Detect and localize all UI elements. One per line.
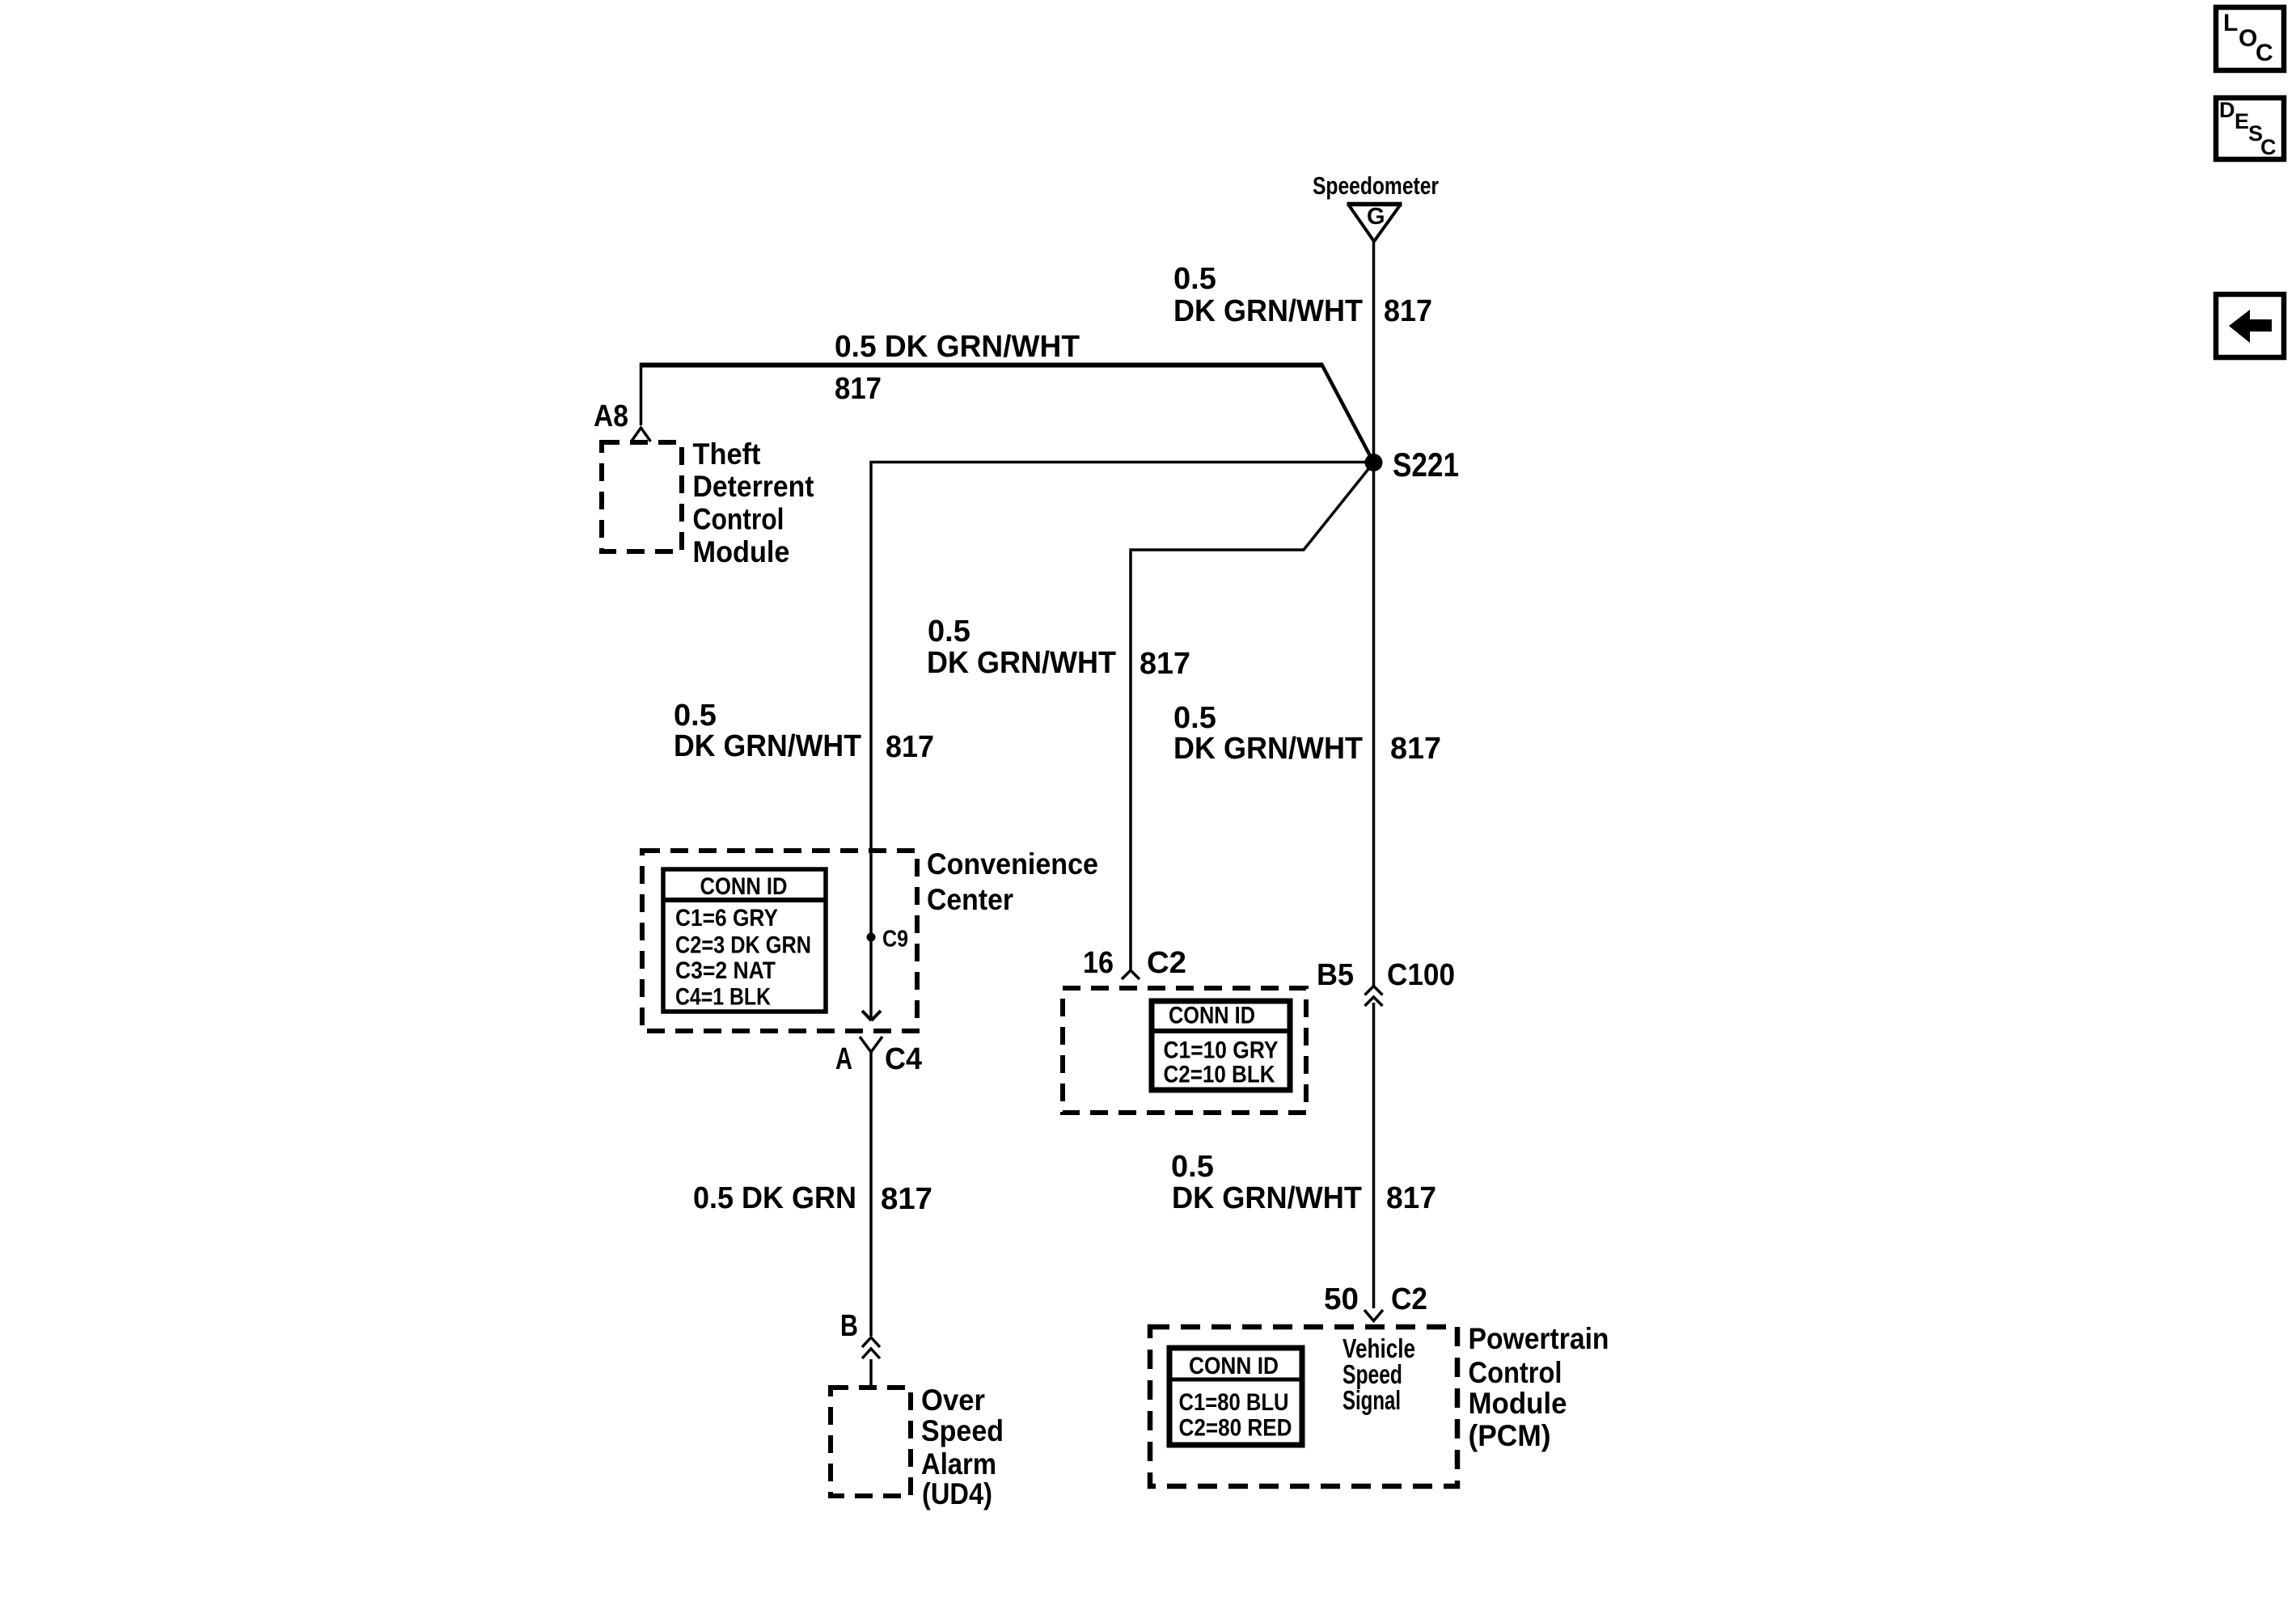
svg-text:C100: C100 [1387, 958, 1455, 992]
svg-text:817: 817 [881, 1182, 932, 1216]
svg-text:B: B [840, 1309, 858, 1343]
svg-text:C3=2 NAT: C3=2 NAT [675, 957, 776, 984]
svg-text:0.5 DK GRN: 0.5 DK GRN [693, 1181, 856, 1215]
svg-text:0.5: 0.5 [1171, 1150, 1214, 1184]
svg-text:E: E [2235, 109, 2249, 133]
svg-text:DK GRN/WHT: DK GRN/WHT [1173, 732, 1363, 766]
svg-text:CONN ID: CONN ID [700, 873, 788, 900]
svg-text:C1=6 GRY: C1=6 GRY [675, 905, 778, 932]
svg-text:0.5 DK GRN/WHT: 0.5 DK GRN/WHT [835, 330, 1080, 364]
svg-text:S221: S221 [1393, 446, 1459, 484]
svg-text:Control: Control [693, 503, 784, 536]
svg-text:Speed: Speed [921, 1414, 1004, 1447]
svg-text:C1=10 GRY: C1=10 GRY [1164, 1037, 1279, 1064]
svg-text:B5: B5 [1317, 958, 1354, 992]
svg-text:Powertrain: Powertrain [1469, 1322, 1609, 1355]
svg-text:(PCM): (PCM) [1469, 1419, 1551, 1452]
svg-text:Convenience: Convenience [927, 847, 1098, 881]
svg-text:Speedometer: Speedometer [1313, 171, 1439, 200]
svg-text:0.5: 0.5 [1173, 262, 1216, 296]
svg-text:0.5: 0.5 [1173, 701, 1216, 735]
svg-text:(UD4): (UD4) [922, 1477, 992, 1510]
svg-text:C4: C4 [885, 1042, 922, 1076]
svg-text:0.5: 0.5 [928, 615, 970, 648]
svg-text:817: 817 [1386, 1181, 1436, 1215]
svg-text:0.5: 0.5 [674, 699, 717, 733]
svg-text:D: D [2219, 98, 2235, 122]
svg-text:DK GRN/WHT: DK GRN/WHT [1173, 294, 1363, 328]
svg-text:Center: Center [927, 883, 1013, 916]
svg-text:CONN ID: CONN ID [1169, 1003, 1255, 1029]
svg-text:DK GRN/WHT: DK GRN/WHT [674, 729, 861, 763]
svg-text:A: A [835, 1042, 852, 1076]
svg-text:DK GRN/WHT: DK GRN/WHT [927, 646, 1116, 680]
svg-text:817: 817 [835, 372, 882, 406]
svg-text:16: 16 [1083, 946, 1114, 980]
svg-text:Module: Module [693, 535, 790, 568]
svg-text:DK GRN/WHT: DK GRN/WHT [1172, 1181, 1362, 1215]
svg-text:50: 50 [1324, 1282, 1359, 1316]
svg-text:Alarm: Alarm [921, 1447, 996, 1481]
svg-text:O: O [2239, 25, 2257, 52]
svg-text:C2=10 BLK: C2=10 BLK [1164, 1062, 1275, 1088]
svg-text:817: 817 [1140, 647, 1190, 681]
svg-text:C2=3 DK GRN: C2=3 DK GRN [675, 932, 811, 959]
svg-text:Module: Module [1469, 1387, 1567, 1420]
svg-text:C4=1 BLK: C4=1 BLK [675, 984, 771, 1011]
svg-text:G: G [1367, 204, 1385, 230]
svg-text:Signal: Signal [1343, 1385, 1401, 1415]
svg-text:L: L [2223, 10, 2238, 36]
svg-text:Over: Over [921, 1384, 985, 1417]
svg-text:Theft: Theft [693, 437, 761, 471]
svg-text:Control: Control [1469, 1356, 1562, 1389]
svg-text:C: C [2260, 135, 2277, 159]
svg-text:817: 817 [1384, 294, 1432, 328]
svg-text:C: C [2256, 40, 2273, 66]
svg-text:817: 817 [1390, 732, 1441, 766]
svg-text:Deterrent: Deterrent [693, 470, 814, 503]
svg-text:C2: C2 [1391, 1282, 1427, 1316]
svg-text:CONN ID: CONN ID [1189, 1353, 1279, 1379]
svg-text:C2=80 RED: C2=80 RED [1179, 1415, 1292, 1442]
svg-text:C1=80 BLU: C1=80 BLU [1179, 1389, 1289, 1416]
svg-text:C2: C2 [1147, 946, 1186, 980]
svg-text:C9: C9 [882, 927, 908, 953]
svg-text:817: 817 [886, 730, 934, 764]
svg-text:A8: A8 [594, 399, 628, 433]
